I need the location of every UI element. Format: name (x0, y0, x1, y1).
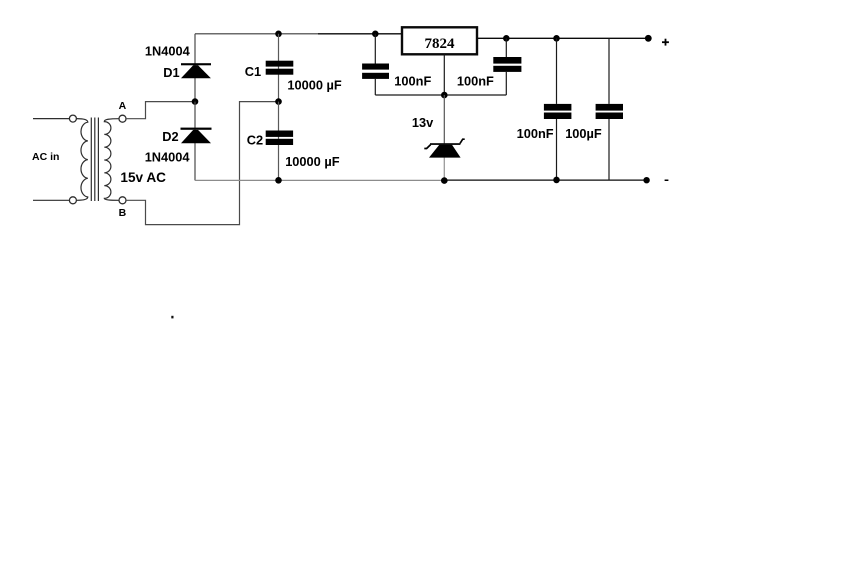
svg-text:D1: D1 (163, 65, 179, 80)
zener diode Z1 bar left bend (424, 145, 430, 149)
capacitor C4 100nF (493, 57, 521, 72)
svg-text:C2: C2 (247, 133, 263, 148)
svg-text:13v: 13v (412, 115, 434, 130)
svg-text:C1: C1 (245, 64, 261, 79)
diode D1 (181, 65, 211, 78)
node output negative terminal (643, 177, 649, 183)
svg-text:D2: D2 (162, 129, 178, 144)
terminal A (119, 115, 126, 122)
wire D1 branch vertical (194, 34, 196, 102)
terminal B (119, 197, 126, 204)
junction node zener bottom (441, 177, 448, 184)
wire C3 branch vertical top (374, 34, 376, 64)
svg-text:7824: 7824 (425, 36, 456, 52)
regulator U1 7824 (402, 27, 477, 54)
terminal primary bottom (69, 197, 76, 204)
wire C6 branch vertical top (608, 38, 610, 104)
svg-text:100nF: 100nF (457, 74, 494, 89)
terminal primary top (69, 115, 76, 122)
wire regulator ground pin (443, 54, 445, 95)
svg-text:100µF: 100µF (565, 126, 602, 141)
wire C1 branch vertical (278, 34, 280, 102)
capacitor C2 (266, 131, 293, 146)
svg-text:100nF: 100nF (517, 126, 554, 141)
svg-text:AC in: AC in (32, 151, 59, 163)
svg-text:B: B (119, 207, 127, 219)
wire C6 branch vertical bottom (608, 119, 610, 180)
wire C4 branch vertical bottom (505, 72, 507, 95)
transformer core (91, 118, 98, 202)
transformer T1 secondary winding (104, 119, 119, 201)
svg-text:1N4004: 1N4004 (145, 149, 191, 164)
transformer T1 primary winding (77, 119, 88, 201)
wire AC input top lead (33, 118, 69, 120)
svg-text:A: A (119, 100, 127, 112)
wire bottom rail left (gray) (195, 179, 447, 181)
junction node C2 bottom (275, 177, 282, 184)
wire top rail right of C1 (318, 33, 402, 35)
svg-text:10000 µF: 10000 µF (287, 77, 342, 92)
diode D1 cathode bar (181, 63, 211, 65)
svg-text:1N4004: 1N4004 (145, 43, 191, 58)
node output positive terminal (645, 35, 652, 42)
junction node C3 top (372, 31, 379, 38)
wire C5 branch vertical top (556, 38, 558, 104)
zener diode Z1 cathode bar (430, 143, 460, 145)
capacitor C5 100nF (544, 104, 572, 119)
diode D2 (181, 130, 211, 143)
wire ground link line (375, 94, 506, 96)
wire C4 branch vertical top (505, 38, 507, 57)
junction node regulator ground (441, 92, 448, 99)
capacitor C6 100uF (596, 104, 623, 119)
wire bottom rail right (black) (447, 179, 647, 181)
wire zener bottom lead (443, 157, 445, 180)
zener diode Z1 (429, 145, 461, 158)
junction node diode midpoint (192, 98, 199, 105)
wire C2 branch vertical (278, 102, 280, 181)
junction node C4 top (503, 35, 510, 42)
wire regulator output rail (477, 37, 648, 39)
wire C5 branch vertical bottom (556, 119, 558, 180)
diode D2 cathode bar (181, 128, 212, 130)
junction node C5 top (553, 35, 560, 42)
wire B to capacitor midpoint (126, 102, 279, 225)
svg-text:15v AC: 15v AC (120, 170, 166, 185)
zener diode Z1 bar right bend (460, 139, 465, 143)
label - (665, 180, 669, 182)
svg-text:100nF: 100nF (394, 74, 431, 89)
svg-text:10000 µF: 10000 µF (285, 154, 340, 169)
wire D2 branch vertical (194, 102, 196, 181)
label + (662, 39, 669, 46)
junction node C1 top (275, 31, 282, 38)
wire zener top lead (443, 95, 445, 143)
capacitor C1 (266, 61, 294, 75)
capacitor C3 100nF (362, 64, 389, 79)
stray ink speck (171, 316, 173, 319)
wire A to diode junction (126, 102, 195, 119)
junction node C5 bottom (553, 177, 560, 184)
wire C3 branch vertical bottom (374, 79, 376, 95)
wire AC input bottom lead (33, 199, 69, 201)
junction node capacitor midpoint (275, 98, 282, 105)
wire top rail left (195, 33, 318, 35)
